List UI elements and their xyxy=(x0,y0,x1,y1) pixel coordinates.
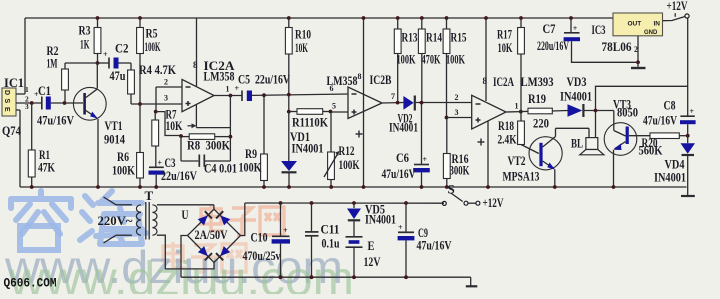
label VD2 xyxy=(398,111,413,126)
wire main ground rail xyxy=(20,186,687,188)
node junction R15 top rail xyxy=(445,16,449,20)
svg-text:3: 3 xyxy=(164,94,168,103)
label C2 xyxy=(115,41,129,56)
capacitor C9 47u/16V electrolytic xyxy=(398,223,415,240)
bridge diode top-right xyxy=(216,211,230,225)
label 100K of R15 xyxy=(446,52,466,67)
wire feedback tap to R8 C4 left xyxy=(156,112,181,136)
wire DC plus distribution line xyxy=(245,202,444,204)
node junction VT1 collector R2 R3 C2 xyxy=(96,61,100,65)
label 100K of R9 xyxy=(239,160,263,175)
label R1 xyxy=(39,147,50,162)
wire R14 top lead xyxy=(421,18,423,29)
wire R20 right lead xyxy=(679,135,687,137)
resistor R20 xyxy=(650,133,679,139)
label R15 xyxy=(451,30,467,45)
svg-text:IC1: IC1 xyxy=(4,75,24,90)
pin number 1 of IC1 xyxy=(25,85,29,94)
label C3 xyxy=(165,155,176,170)
pin number 2 of IC3 xyxy=(634,45,638,54)
svg-text:47u: 47u xyxy=(110,68,126,83)
svg-text:MPSA13: MPSA13 xyxy=(503,169,540,184)
label R3 xyxy=(79,23,91,38)
node junction inverting input R7 feedback xyxy=(154,110,158,114)
wire R13 top lead xyxy=(397,18,399,29)
wire plus input to comparator xyxy=(447,117,472,119)
svg-text:R19: R19 xyxy=(528,91,546,106)
resistor R7 xyxy=(152,120,159,146)
wire collector node to C2 xyxy=(98,62,109,64)
node junction R15 R16 plus input xyxy=(445,116,449,120)
label R2 xyxy=(47,43,59,58)
label C6 xyxy=(396,150,409,165)
svg-text:E: E xyxy=(3,107,10,112)
svg-text:C8: C8 xyxy=(664,98,676,113)
capacitor C7 220u/16V electrolytic xyxy=(564,24,580,41)
label IN4001 of VD5 xyxy=(365,212,396,227)
label C10 xyxy=(251,230,268,245)
wire R2 to collector node xyxy=(65,62,98,64)
svg-text:R3: R3 xyxy=(79,23,91,38)
svg-text:22u/16V: 22u/16V xyxy=(161,168,197,183)
wire VD4 top lead xyxy=(687,136,689,144)
wire +6V top supply rail xyxy=(25,17,613,19)
wire R9 top lead xyxy=(263,95,265,154)
label 47u/16V of C8 xyxy=(643,113,677,128)
svg-text:S: S xyxy=(3,99,10,104)
label E xyxy=(368,238,375,253)
wire inverting node vertical xyxy=(155,87,157,112)
svg-text:100K: 100K xyxy=(112,163,136,178)
svg-text:C5 22u/16V: C5 22u/16V xyxy=(238,72,290,87)
svg-text:+: + xyxy=(423,155,428,164)
node junction C5 R9 xyxy=(262,93,266,97)
power plus mark under IC2B xyxy=(356,131,363,138)
wire C2 to R4 xyxy=(119,62,132,64)
svg-text:78L06: 78L06 xyxy=(602,39,632,54)
wire C5 out to IC2B inverting input xyxy=(252,94,348,95)
speaker BL xyxy=(580,138,604,155)
label C9 xyxy=(418,225,428,240)
wire battery bottom lead xyxy=(352,247,356,279)
label R7 xyxy=(166,107,177,122)
svg-text:2.4K: 2.4K xyxy=(498,132,518,147)
label LM393 xyxy=(521,74,554,89)
label R18 xyxy=(498,118,514,133)
label 470u/25v xyxy=(243,248,281,263)
svg-text:47u/16V: 47u/16V xyxy=(382,166,416,181)
svg-text:IN4001: IN4001 xyxy=(365,212,396,227)
label 47K xyxy=(38,160,56,175)
pin number 2 of IC1 xyxy=(25,95,29,104)
label BL xyxy=(571,136,583,151)
label R5 xyxy=(146,26,158,41)
node junction R20 VD4 C8 xyxy=(686,134,690,138)
capacitor C4 0.01 xyxy=(199,155,204,167)
terminal +12V top right xyxy=(675,13,689,18)
wire IC2A pin4 segment xyxy=(196,105,230,128)
wire C10 top lead xyxy=(280,203,282,236)
svg-text:C4 0.01: C4 0.01 xyxy=(204,161,237,176)
label VD4 xyxy=(665,157,685,172)
resistor R6 xyxy=(137,153,144,179)
wire IC3 gnd pin xyxy=(636,36,640,64)
label 47u xyxy=(110,68,126,83)
node junction IC2A output feedback xyxy=(229,94,233,98)
op-amp IC2A LM358 triangle xyxy=(182,79,214,111)
label T xyxy=(145,188,154,203)
label C4 0.01 xyxy=(204,161,237,176)
wire power ground line xyxy=(181,276,471,278)
pin number 8 of IC2A xyxy=(193,60,198,70)
wire R10 top lead xyxy=(288,18,290,28)
svg-text:470K: 470K xyxy=(422,52,442,67)
wire C7 top lead xyxy=(570,18,572,32)
node junction R17 top rail xyxy=(519,16,523,20)
battery E 12V xyxy=(346,237,363,247)
diode VD4 IN4001 xyxy=(681,143,696,155)
svg-text:+: + xyxy=(283,226,288,235)
svg-text:VD3: VD3 xyxy=(567,74,587,89)
label R16 xyxy=(452,151,469,166)
IC regulator IC3 78L06 body xyxy=(613,13,663,36)
svg-text:U: U xyxy=(182,207,189,222)
node junction VD2 R14 C6 xyxy=(420,101,424,105)
svg-text:R15: R15 xyxy=(451,30,467,45)
label 560K xyxy=(639,143,664,158)
label VT1 xyxy=(105,118,123,133)
pin number 3 of IC1 xyxy=(25,102,29,111)
watermark www.dziuu.com gray-blue xyxy=(4,241,343,293)
label R19 xyxy=(528,91,546,106)
wire R7 top lead xyxy=(154,112,156,120)
svg-text:R4 4.7K: R4 4.7K xyxy=(139,62,177,77)
svg-text:1M: 1M xyxy=(47,56,58,71)
watermark ronghai blue xyxy=(11,191,146,250)
svg-text:C6: C6 xyxy=(396,150,409,165)
wire R3 bottom lead xyxy=(97,54,99,64)
pin number 1 of IC2A xyxy=(226,85,230,94)
wire C6 top lead xyxy=(421,103,423,164)
wire R16 bottom lead xyxy=(445,179,449,189)
svg-text:10K: 10K xyxy=(295,40,308,55)
label R9 xyxy=(245,146,257,161)
svg-text:+: + xyxy=(690,107,695,116)
node junction C11 top xyxy=(310,201,314,205)
label 9014 xyxy=(104,132,125,147)
svg-text:10K: 10K xyxy=(166,118,184,133)
wire R10 bottom lead xyxy=(288,54,290,112)
svg-text:12V: 12V xyxy=(364,254,381,269)
wire C9 top lead xyxy=(405,203,407,232)
svg-text:IC2A: IC2A xyxy=(493,74,514,89)
wire IC1 pin1 to top rail xyxy=(16,18,25,94)
label IC2A LM393 xyxy=(493,74,514,89)
wire R19 right lead xyxy=(552,110,567,113)
node junction R8 left xyxy=(179,134,183,138)
bridge diode bottom-left xyxy=(198,246,212,260)
svg-text:T: T xyxy=(145,188,154,203)
svg-text:R8 300K: R8 300K xyxy=(187,138,231,153)
wire R14 bottom lead xyxy=(421,54,423,103)
capacitor C3 22u/16V electrolytic xyxy=(149,159,165,175)
pin number 2 of IC2A xyxy=(164,78,168,87)
svg-text:3: 3 xyxy=(25,102,29,111)
resistor R17 xyxy=(518,28,525,55)
svg-text:8: 8 xyxy=(358,72,362,81)
node junction R14 top rail xyxy=(420,16,424,20)
label 100K of R5 xyxy=(145,39,161,54)
op-amp IC2B LM358 triangle xyxy=(348,87,382,119)
label 220 xyxy=(533,116,549,131)
label 470K of R14 xyxy=(422,52,442,67)
diode VD5 IN4001 xyxy=(347,209,361,221)
svg-text:47u/16V: 47u/16V xyxy=(643,113,677,128)
wire speaker feed from +12V rail xyxy=(596,86,688,137)
svg-text:+: + xyxy=(573,24,578,33)
wire C6 bottom lead xyxy=(420,172,424,189)
svg-text:+: + xyxy=(398,223,403,232)
wire R1 top lead xyxy=(31,103,33,150)
node junction speaker VD3 VT3 xyxy=(594,109,598,113)
pin number 3 of comparator xyxy=(455,108,459,117)
label R14 xyxy=(426,30,442,45)
wire IC3 IN pin to +12V terminal xyxy=(663,17,686,21)
label Q606.COM xyxy=(4,277,57,291)
resistor R3 xyxy=(94,28,101,54)
label VD3 xyxy=(567,74,587,89)
node junction R11 left xyxy=(287,110,291,114)
capacitor C1 47u/16V electrolytic xyxy=(34,90,51,110)
resistor R8 xyxy=(189,134,215,140)
svg-text:C1: C1 xyxy=(38,83,51,98)
wire VD4 cathode to ground rail xyxy=(687,156,689,187)
capacitor C10 470u/25v electrolytic xyxy=(272,226,290,244)
wire R7 bottom to C3 xyxy=(155,146,157,167)
svg-text:R1110K: R1110K xyxy=(292,115,329,130)
svg-text:LM358: LM358 xyxy=(204,69,235,84)
power plus mark under comparator xyxy=(478,139,485,146)
capacitor C6 47u/16V electrolytic xyxy=(413,155,430,172)
svg-text:+: + xyxy=(158,159,163,168)
label 1M xyxy=(47,56,58,71)
svg-text:R12: R12 xyxy=(339,143,355,158)
label R8 300K xyxy=(187,138,231,153)
node junction R13 top rail xyxy=(396,16,400,20)
label VD5 xyxy=(365,202,385,217)
svg-text:+: + xyxy=(103,50,108,59)
wire R12 bottom lead xyxy=(329,180,333,189)
node junction C7 top rail xyxy=(569,16,573,20)
wire IC2A output xyxy=(214,95,242,97)
wire IC2A inverting input xyxy=(156,86,182,88)
label C5 22u/16V xyxy=(238,72,290,87)
resistor R10 xyxy=(285,28,292,55)
resistor R13 xyxy=(394,29,401,54)
wire R4 top lead xyxy=(130,63,132,70)
label IN4001 of VD1 xyxy=(292,141,324,156)
svg-text:IN4001: IN4001 xyxy=(292,141,324,156)
wire VT3 base to R20 xyxy=(629,135,650,137)
svg-text:Q74: Q74 xyxy=(2,123,21,138)
wire VT2 emitter to ground xyxy=(553,170,557,189)
svg-text:0.1u: 0.1u xyxy=(322,236,340,251)
resistor R12 trimmer xyxy=(324,151,340,180)
wire R17 bottom lead xyxy=(520,54,522,112)
node junction R3 top rail xyxy=(96,16,100,20)
op-amp comparator IC2A LM393 triangle xyxy=(472,95,506,129)
svg-text:470u/25v: 470u/25v xyxy=(243,248,281,263)
svg-text:C2: C2 xyxy=(115,41,129,56)
label IN4001 of VD4 xyxy=(654,170,686,185)
svg-text:C11: C11 xyxy=(321,222,340,237)
svg-text:47K: 47K xyxy=(38,160,56,175)
wire R4 bottom lead to noninverting input xyxy=(131,94,182,104)
wire +12V rail right edge upper xyxy=(687,18,689,116)
label R11 10K xyxy=(292,115,329,130)
resistor R5 xyxy=(137,28,144,54)
svg-text:8: 8 xyxy=(193,60,198,70)
svg-text:IN: IN xyxy=(654,21,661,28)
label U xyxy=(182,207,189,222)
wire comparator pin4 to ground xyxy=(486,121,490,189)
label C7 xyxy=(543,21,556,36)
bridge rectifier U diamond xyxy=(188,209,241,262)
wire R3 top lead xyxy=(97,18,99,28)
wire C3 bottom lead xyxy=(154,175,158,189)
wire C9 bottom lead xyxy=(404,240,408,279)
svg-text:100K: 100K xyxy=(339,157,361,172)
svg-text:100K: 100K xyxy=(446,52,466,67)
capacitor C5 22u/16V electrolytic xyxy=(235,84,253,101)
transistor VT3 8050 xyxy=(604,123,637,156)
svg-text:47u/16V: 47u/16V xyxy=(417,238,452,253)
resistor R2 xyxy=(62,69,69,90)
resistor R14 xyxy=(418,29,425,54)
label IC1 xyxy=(4,75,24,90)
pin number 2 of comparator xyxy=(455,93,459,102)
pin number 6 of IC2B xyxy=(330,84,334,93)
svg-text:100K: 100K xyxy=(397,52,417,67)
transistor VT2 MPSA13 xyxy=(529,137,562,170)
label R12 xyxy=(339,143,355,158)
label 300K of R16 xyxy=(450,163,471,178)
label IN4001 of VD3 xyxy=(560,89,592,104)
pin number 5 of IC2B xyxy=(332,102,336,111)
wire 220V plug prongs xyxy=(104,197,117,243)
node junction R1 top on pin2 wire xyxy=(30,101,34,105)
svg-text:100K: 100K xyxy=(239,160,263,175)
svg-text:220V~: 220V~ xyxy=(98,213,133,228)
node junction R10 top rail xyxy=(287,16,291,20)
label +12V top right xyxy=(667,0,688,13)
wire VT1 collector vertical xyxy=(96,63,98,89)
svg-text:2: 2 xyxy=(164,78,168,87)
wire R16 top lead xyxy=(446,118,448,154)
wire C10 bottom lead xyxy=(279,244,283,280)
svg-text:100K: 100K xyxy=(145,39,161,54)
diode VD2 IN4001 xyxy=(403,96,414,111)
label R6 xyxy=(117,149,129,164)
wire VT2 collector up xyxy=(556,128,590,136)
label IN4001 of VD2 xyxy=(389,120,418,135)
svg-text:LM358: LM358 xyxy=(327,73,358,88)
node junction R11 right pin5 xyxy=(329,110,333,114)
wire C11 bottom lead xyxy=(310,236,314,279)
label 100K of R6 xyxy=(112,163,136,178)
wire VD2 cathode to comparator xyxy=(416,102,472,104)
svg-text:GND: GND xyxy=(644,30,658,36)
wire R17 top lead xyxy=(520,18,522,28)
capacitor C2 47u electrolytic xyxy=(103,50,119,69)
wire VD5 to battery xyxy=(353,221,355,236)
transistor VT1 9014 xyxy=(73,87,106,120)
svg-text:1K: 1K xyxy=(80,37,90,52)
transformer T core xyxy=(146,202,149,240)
svg-text:220u/16V: 220u/16V xyxy=(537,38,569,53)
svg-text:8: 8 xyxy=(483,76,488,86)
node junction R10 on pin6 wire xyxy=(287,93,291,97)
resistor R18 xyxy=(518,121,525,145)
resistor R1 xyxy=(28,150,35,177)
label 2.4K xyxy=(498,132,518,147)
node junction R5 top rail xyxy=(138,16,142,20)
wire C11 top lead xyxy=(311,203,313,231)
watermark dianziwang pink xyxy=(163,205,284,272)
label LM358 xyxy=(204,69,235,84)
wire R9 bottom lead xyxy=(262,181,266,189)
wire R15 bottom lead xyxy=(446,54,448,118)
ground symbol right end of power ground xyxy=(466,277,478,286)
label VT3 xyxy=(613,97,631,112)
label IC2B xyxy=(370,72,392,87)
wire VD1 bottom lead xyxy=(287,173,291,189)
label 78L06 xyxy=(602,39,632,54)
svg-text:R13: R13 xyxy=(402,30,418,45)
label R10 xyxy=(295,27,311,42)
svg-text:7: 7 xyxy=(391,92,395,101)
wire R8 leads xyxy=(181,136,230,138)
wire R15 top lead xyxy=(446,18,448,29)
svg-text:E: E xyxy=(368,238,375,253)
svg-text:+12V: +12V xyxy=(667,0,688,13)
label 47u/16V of C6 xyxy=(382,166,416,181)
wire IC1 pin3 to ground rail xyxy=(16,110,20,187)
label R20 xyxy=(642,135,658,150)
label IC2A xyxy=(204,58,236,73)
label 47u/16V of C9 xyxy=(417,238,452,253)
wire speaker lead A to VT2 collector xyxy=(588,128,590,137)
pin number 8 of comparator xyxy=(483,76,488,86)
wire VT1 emitter to ground rail xyxy=(96,119,100,189)
wire IC2B output xyxy=(382,102,403,105)
wire R1 bottom lead xyxy=(30,177,34,189)
svg-text:OUT: OUT xyxy=(628,21,642,28)
label MPSA13 xyxy=(503,169,540,184)
node junction R8 right xyxy=(229,135,233,139)
node junction comparator output R17 R18 R19 xyxy=(519,110,523,114)
bridge diode bottom-right xyxy=(216,246,230,260)
svg-text:Q606.COM: Q606.COM xyxy=(4,277,57,291)
wire R6 bottom lead xyxy=(138,178,142,189)
label 100K of R12 xyxy=(339,157,361,172)
svg-text:R14: R14 xyxy=(426,30,442,45)
svg-text:1: 1 xyxy=(226,85,230,94)
wire R18 to VT2 base xyxy=(521,145,539,154)
label 2A/50V xyxy=(195,227,228,242)
svg-text:5: 5 xyxy=(332,102,336,111)
resistor R4 xyxy=(128,70,135,94)
